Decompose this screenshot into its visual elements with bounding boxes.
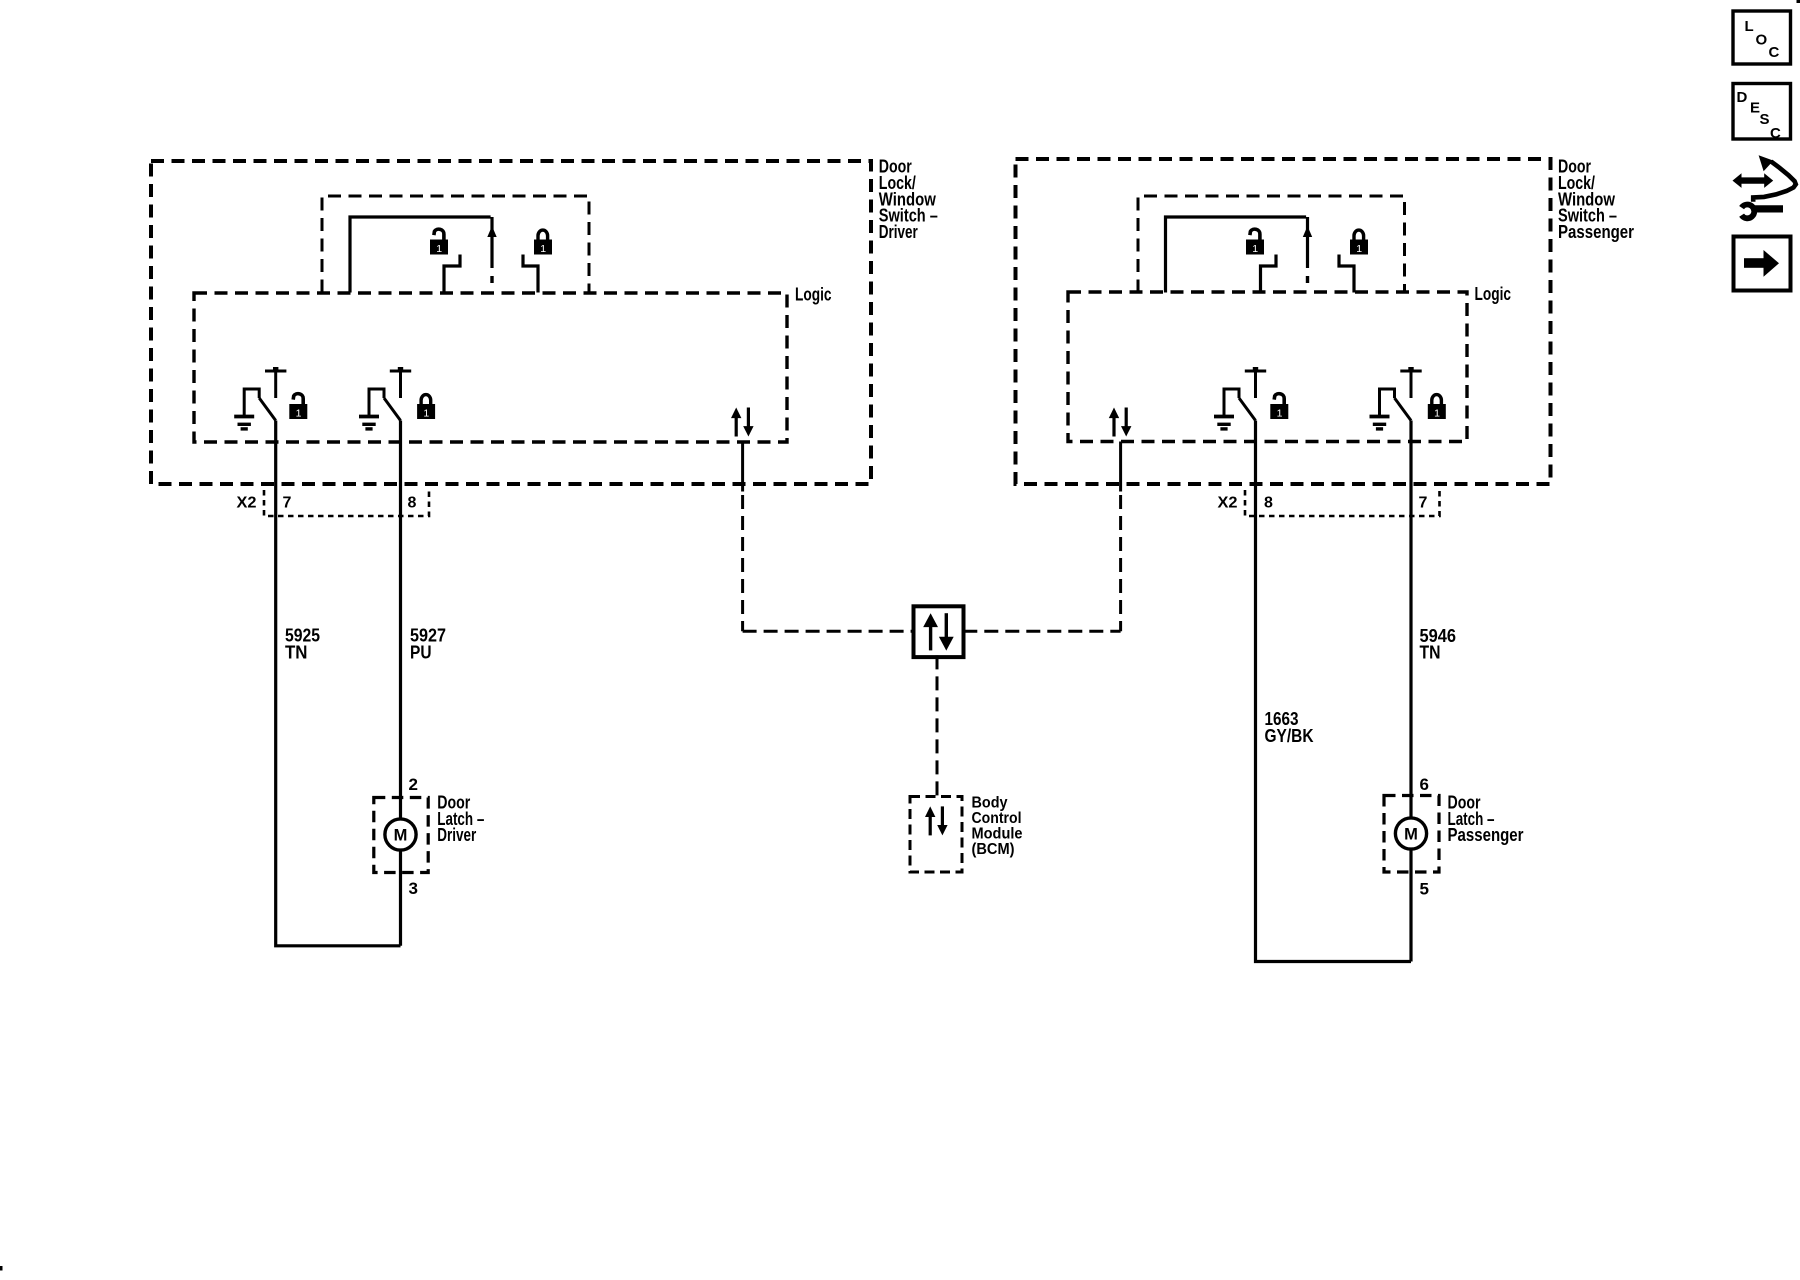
svg-text:Passenger: Passenger xyxy=(1558,222,1634,242)
padlock closed (logic passenger) xyxy=(1428,395,1446,420)
svg-text:M: M xyxy=(394,827,408,845)
wire lock status driver dashed xyxy=(741,495,744,631)
lock status arrows driver xyxy=(731,408,754,437)
padlock closed (knob box driver) xyxy=(534,230,552,255)
icon go box xyxy=(1734,237,1791,291)
wire lock status passenger solid xyxy=(1119,442,1122,492)
dashed wire junction to passenger xyxy=(963,630,1120,633)
wire 5946 TN vertical xyxy=(1409,421,1412,796)
padlock open (logic passenger) xyxy=(1270,394,1288,420)
svg-text:GY/BK: GY/BK xyxy=(1265,726,1314,746)
feed wire in knob box passenger xyxy=(1166,217,1307,293)
knob pole arrowhead driver xyxy=(487,226,496,237)
stray mark top right xyxy=(1797,0,1800,3)
motor feed wire top passenger xyxy=(1409,796,1412,819)
label 5927 PU xyxy=(410,626,446,663)
svg-text:TN: TN xyxy=(1420,643,1441,663)
padlock open (knob box passenger) xyxy=(1246,229,1264,255)
svg-text:D: D xyxy=(1737,89,1748,106)
svg-text:L: L xyxy=(1745,18,1754,35)
svg-text:Driver: Driver xyxy=(879,222,918,242)
stray mark bottom left xyxy=(0,1266,3,1271)
svg-text:(BCM): (BCM) xyxy=(972,841,1015,858)
unlock switch passenger xyxy=(1214,367,1266,429)
lock contact hook passenger xyxy=(1339,255,1354,293)
Door Latch Passenger box xyxy=(1384,796,1439,873)
wire 1663 GY/BK vertical xyxy=(1256,421,1412,962)
dashed wire driver to junction xyxy=(743,630,914,633)
padlock open (knob box driver) xyxy=(430,229,448,255)
padlock open (logic driver) xyxy=(289,394,307,420)
lock status arrows passenger xyxy=(1109,408,1132,437)
svg-text:7: 7 xyxy=(283,495,292,512)
svg-text:Control: Control xyxy=(972,810,1022,827)
unlock contact hook passenger xyxy=(1261,255,1277,293)
knob box (inner switch box) passenger xyxy=(1138,196,1405,293)
svg-text:8: 8 xyxy=(408,495,417,512)
svg-text:PU: PU xyxy=(410,643,432,663)
feed wire in knob box driver xyxy=(350,217,491,293)
knob pole dash passenger xyxy=(1306,276,1309,283)
connector X2 box driver xyxy=(264,490,429,516)
dashed wire junction to BCM xyxy=(936,655,939,796)
svg-text:C: C xyxy=(1770,125,1781,142)
svg-text:8: 8 xyxy=(1264,495,1273,512)
icon LOC box xyxy=(1733,11,1791,64)
svg-text:2: 2 xyxy=(409,775,418,794)
wire lock status driver solid xyxy=(741,442,744,492)
unlock switch driver xyxy=(234,367,286,429)
icon DESC box xyxy=(1733,84,1791,143)
svg-text:X2: X2 xyxy=(237,495,257,512)
knob pole driver xyxy=(490,217,493,268)
junction lock arrows box xyxy=(914,606,964,657)
switch module box: Door Lock/Window Switch - Driver xyxy=(151,161,871,484)
label 5925 TN xyxy=(285,626,320,663)
motor wire bottom passenger xyxy=(1409,849,1412,962)
svg-text:5: 5 xyxy=(1420,879,1429,898)
wire lock status passenger dashed xyxy=(1119,495,1122,631)
BCM box xyxy=(910,797,962,873)
svg-text:O: O xyxy=(1756,32,1768,49)
junction arrows xyxy=(923,613,954,650)
lock switch driver xyxy=(359,367,411,429)
label 5946 TN xyxy=(1420,626,1457,663)
svg-text:M: M xyxy=(1404,826,1418,844)
lock switch passenger xyxy=(1370,367,1422,429)
label 1663 GY/BK xyxy=(1265,709,1314,746)
Logic box passenger xyxy=(1068,292,1467,442)
knob box (inner switch box) driver xyxy=(322,196,589,293)
knob pole dash driver xyxy=(490,276,493,283)
wire 5927 PU vertical xyxy=(399,421,402,798)
label Door Latch - Passenger xyxy=(1448,793,1524,846)
svg-text:X2: X2 xyxy=(1218,495,1238,512)
svg-text:TN: TN xyxy=(285,643,308,663)
svg-text:Driver: Driver xyxy=(437,825,476,845)
svg-text:Passenger: Passenger xyxy=(1448,825,1524,845)
wire 5925 TN vertical xyxy=(276,421,401,946)
lock contact hook driver xyxy=(523,255,538,293)
connector X2 box passenger xyxy=(1245,490,1440,516)
label Body Control Module (BCM) xyxy=(972,794,1023,858)
unlock contact hook driver xyxy=(444,255,460,293)
svg-text:Body: Body xyxy=(972,794,1008,811)
svg-text:7: 7 xyxy=(1419,495,1428,512)
svg-text:Module: Module xyxy=(972,825,1023,842)
svg-text:3: 3 xyxy=(409,879,418,898)
knob pole arrowhead passenger xyxy=(1303,226,1312,237)
switch module box: Door Lock/Window Switch - Passenger xyxy=(1016,159,1551,484)
label Door Lock/Window Switch - Passenger xyxy=(1558,157,1634,242)
padlock closed (logic driver) xyxy=(417,395,435,420)
motor wire bottom driver xyxy=(399,850,402,946)
Logic box driver xyxy=(194,293,787,442)
svg-text:6: 6 xyxy=(1420,775,1429,794)
svg-text:S: S xyxy=(1760,111,1770,128)
svg-text:Logic: Logic xyxy=(1475,284,1512,304)
motor M driver xyxy=(385,819,416,850)
icon jump-arrows xyxy=(1733,155,1796,218)
svg-text:C: C xyxy=(1769,44,1780,61)
Door Latch Driver box xyxy=(374,798,428,873)
label Door Latch - Driver xyxy=(437,793,484,846)
motor M passenger xyxy=(1395,818,1426,849)
label Door Lock/Window Switch - Driver xyxy=(879,157,938,242)
knob pole passenger xyxy=(1306,217,1309,268)
BCM arrows xyxy=(925,806,948,835)
padlock closed (knob box passenger) xyxy=(1350,230,1368,255)
motor feed wire top driver xyxy=(399,798,402,820)
svg-text:Logic: Logic xyxy=(795,285,832,305)
svg-text:E: E xyxy=(1750,100,1760,117)
